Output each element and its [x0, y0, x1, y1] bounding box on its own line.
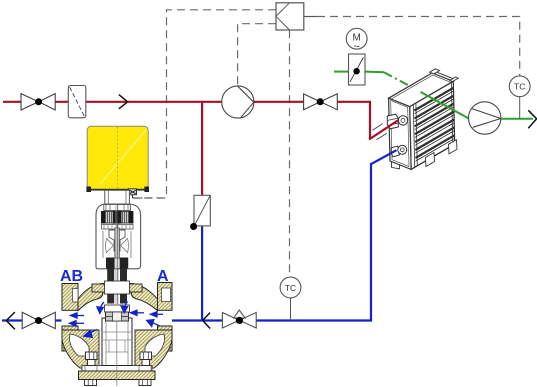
valve V2 (shut-off before coil): [304, 94, 338, 110]
valve V1 (shut-off on supply): [21, 94, 55, 110]
HX feet: [392, 161, 400, 169]
balancing valve F2: [194, 195, 210, 226]
body top flange: [92, 284, 142, 292]
fan: [469, 102, 501, 134]
strainer F1: [68, 86, 86, 118]
valve stem (dark bars): [107, 204, 127, 305]
damper actuator box: [349, 54, 366, 85]
HX front panel: [389, 98, 412, 169]
svg-text:A: A: [157, 268, 169, 285]
HX lower pipe stub: [391, 146, 399, 157]
wire: blue segment under balancing valve: [201, 226, 203, 321]
wire: controller to valve actuator (dashed): [137, 10, 520, 277]
air line (green) damper to coil, dash-dot: [365, 71, 384, 74]
right flange: [158, 283, 173, 311]
flow arrows inside valve: [70, 302, 164, 338]
wire: controller right stub (solid): [304, 16, 317, 18]
flow arrow at node (202,320): [203, 313, 211, 329]
lower right lobe: [135, 330, 172, 368]
wire: red drop to balancing valve: [201, 103, 203, 196]
HX fins panel: [410, 81, 455, 169]
bottom washer band: [82, 366, 152, 372]
bonnet yoke interior: [103, 231, 131, 258]
wire: blue return line left segment: [2, 319, 63, 321]
HX rear rim + tabs: [432, 70, 453, 81]
controller U1: [276, 3, 304, 30]
flow arrow on supply: [119, 95, 128, 109]
left flange: [62, 284, 78, 311]
bolts: [85, 352, 152, 386]
plug head: [105, 305, 130, 312]
valve V4 (balancing valve on return): [222, 310, 256, 328]
svg-text:AB: AB: [60, 268, 83, 285]
valve body (3-way): [62, 281, 173, 386]
air line (green) fan outlet: [501, 118, 533, 120]
heat exchanger HX coil: top face: [389, 73, 454, 107]
HX upper pipe stub: [387, 114, 398, 129]
wire: controller to TC2 (dashed): [289, 30, 291, 277]
air line (green) into damper: [334, 71, 349, 73]
supply air arrow: [528, 110, 536, 128]
wire: blue connection from coil (over panel): [370, 150, 397, 164]
pipe break marks: [373, 124, 387, 140]
sensor TC2 (return water): [290, 298, 292, 320]
actuator A1 (yellow): [86, 126, 149, 192]
bottom slab: [79, 371, 156, 380]
stem packing: [106, 258, 115, 269]
wire: red supply line left segment: [3, 101, 68, 103]
lower cavity whites: [69, 334, 89, 356]
flow arrow on return (left end): [6, 312, 15, 329]
wire: controller to TC1 (dashed): [317, 17, 520, 77]
wire: controller to pump (dashed): [238, 24, 276, 85]
actuator cable gland: [129, 189, 167, 198]
pump P1: [222, 86, 254, 118]
HX bottom edge: [411, 144, 455, 169]
valve V3 (shut-off on return, left): [22, 312, 55, 328]
bonnet spring pack (hatched band): [102, 212, 134, 224]
body channel (white): [62, 304, 173, 334]
wire: red connection into coil (over panel): [369, 120, 399, 140]
sensor TC1 (supply air): [519, 97, 521, 119]
valve bonnet: [96, 190, 141, 268]
fan motor M: [346, 28, 367, 49]
air line (green) through fins to fan: [421, 92, 470, 119]
wire: red supply line middle segment: [86, 101, 222, 103]
centre cage: [102, 318, 132, 366]
lower left lobe: [62, 330, 99, 368]
wire: blue return line right segment + riser to coil: [172, 165, 372, 321]
wire: red supply line right segment + drop to coil: [254, 102, 370, 139]
upper shoulder mass: [78, 284, 158, 311]
